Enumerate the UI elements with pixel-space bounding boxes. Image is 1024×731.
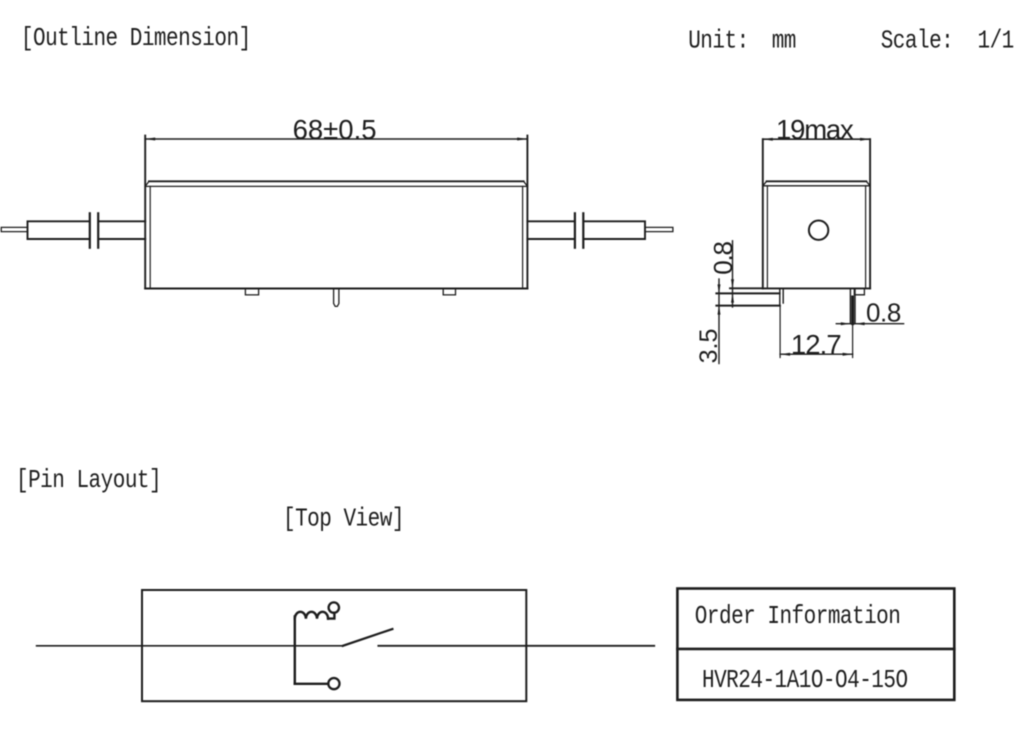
flange line lower <box>716 305 779 307</box>
left lead tube <box>28 221 90 239</box>
right lead crimp ring 2 <box>582 213 584 247</box>
svg-text:Order Information: Order Information <box>695 604 901 632</box>
bottom tab 2 <box>443 289 455 295</box>
right pin extension line <box>852 324 854 358</box>
bottom center pin <box>334 289 339 307</box>
dimension 68 right arrow <box>517 138 527 141</box>
left lead thin wire <box>1 227 27 231</box>
coil top terminal stub <box>328 613 334 619</box>
side view body lid top <box>149 180 524 182</box>
flange extension line (body bottom, to 0.8 dim) <box>730 287 763 289</box>
svg-text:Scale:: Scale: <box>881 28 954 56</box>
svg-text:mm: mm <box>772 28 796 56</box>
coil top terminal circle <box>329 602 339 612</box>
dimension 12.7 left arrow <box>780 353 790 356</box>
switch arm <box>343 629 393 646</box>
side view inner wall left <box>149 186 151 288</box>
end view body bottom <box>763 287 870 289</box>
dimension 0.8 right arrow pointing right <box>841 322 851 325</box>
right pin core <box>851 297 854 324</box>
extension line right (doubles as body right wall) <box>526 136 528 289</box>
bottom tab 1 <box>245 289 258 295</box>
dimension 0.8 left arrow down <box>731 279 734 288</box>
svg-text:68±0.5: 68±0.5 <box>293 114 377 145</box>
flange line upper <box>716 292 779 294</box>
end view lid right chamfer <box>866 181 870 186</box>
svg-text:12.7: 12.7 <box>791 329 841 360</box>
side view lid left chamfer <box>145 181 149 186</box>
left pin extension line <box>779 306 781 358</box>
left lead crimp ring 2 <box>97 213 99 247</box>
end view lead circle <box>809 221 828 240</box>
side view inner wall right <box>522 186 524 288</box>
end view right wall with extension <box>869 139 871 288</box>
pin layout rectangle <box>142 590 526 701</box>
extension line left (doubles as body left wall) <box>144 136 146 289</box>
left wire <box>37 645 343 647</box>
end view lid top <box>767 180 867 182</box>
dimension 3.5 arrow down <box>718 284 721 293</box>
end view right step <box>854 288 864 294</box>
dimension 0.8 left arrow up <box>731 294 734 303</box>
dimension 68±0.5 line <box>145 138 527 140</box>
dimension 0.8 right line <box>836 323 903 325</box>
dimension 0.8 left vertical line <box>732 241 734 307</box>
dimension 0.8 right arrow pointing left <box>855 322 865 325</box>
end view right pin <box>850 288 855 323</box>
coil vertical lead <box>294 617 296 684</box>
svg-text:[Top View]: [Top View] <box>283 506 404 534</box>
side view lid seam <box>145 185 527 187</box>
end view inner wall left <box>766 186 768 289</box>
dimension 3.5 arrow up <box>718 306 721 315</box>
svg-text:3.5: 3.5 <box>695 329 723 364</box>
svg-text:0.8: 0.8 <box>708 242 738 275</box>
svg-text:HVR24-1A1O-O4-15O: HVR24-1A1O-O4-15O <box>702 668 908 696</box>
order information table <box>677 589 954 700</box>
dimension 19max line <box>763 138 870 140</box>
end view inner wall right <box>865 186 867 289</box>
left lead tube to body <box>99 221 145 239</box>
right lead tube from body <box>527 221 573 239</box>
svg-text:[Pin Layout]: [Pin Layout] <box>16 467 161 495</box>
coil bottom terminal circle <box>328 678 339 689</box>
right wire <box>378 645 654 647</box>
dimension 3.5 vertical line <box>718 279 720 364</box>
side view lid right chamfer <box>524 181 528 186</box>
coil bottom lead <box>295 683 329 685</box>
svg-text:1/1: 1/1 <box>978 28 1014 56</box>
dimension 12.7 right arrow <box>843 353 853 356</box>
right lead tube <box>584 221 645 239</box>
dimension 19 right arrow <box>860 138 870 141</box>
dimension 12.7 line <box>780 353 853 355</box>
svg-text:Unit:: Unit: <box>688 28 748 56</box>
side view body bottom <box>145 288 527 290</box>
end view left pin <box>780 288 783 305</box>
svg-text:0.8: 0.8 <box>866 298 901 328</box>
left lead crimp ring 1 <box>89 213 91 247</box>
end view lid left chamfer <box>763 181 767 186</box>
svg-text:19max: 19max <box>776 114 854 145</box>
dimension 19 left arrow <box>763 138 773 141</box>
svg-text:[Outline Dimension]: [Outline Dimension] <box>21 25 251 53</box>
right lead thin wire <box>645 227 673 231</box>
right lead crimp ring 1 <box>574 213 576 247</box>
coil arcs <box>295 612 328 619</box>
end view lid seam <box>763 185 870 187</box>
end view left wall with extension <box>762 139 764 288</box>
dimension 68 left arrow <box>145 138 155 141</box>
order table divider <box>677 648 954 651</box>
